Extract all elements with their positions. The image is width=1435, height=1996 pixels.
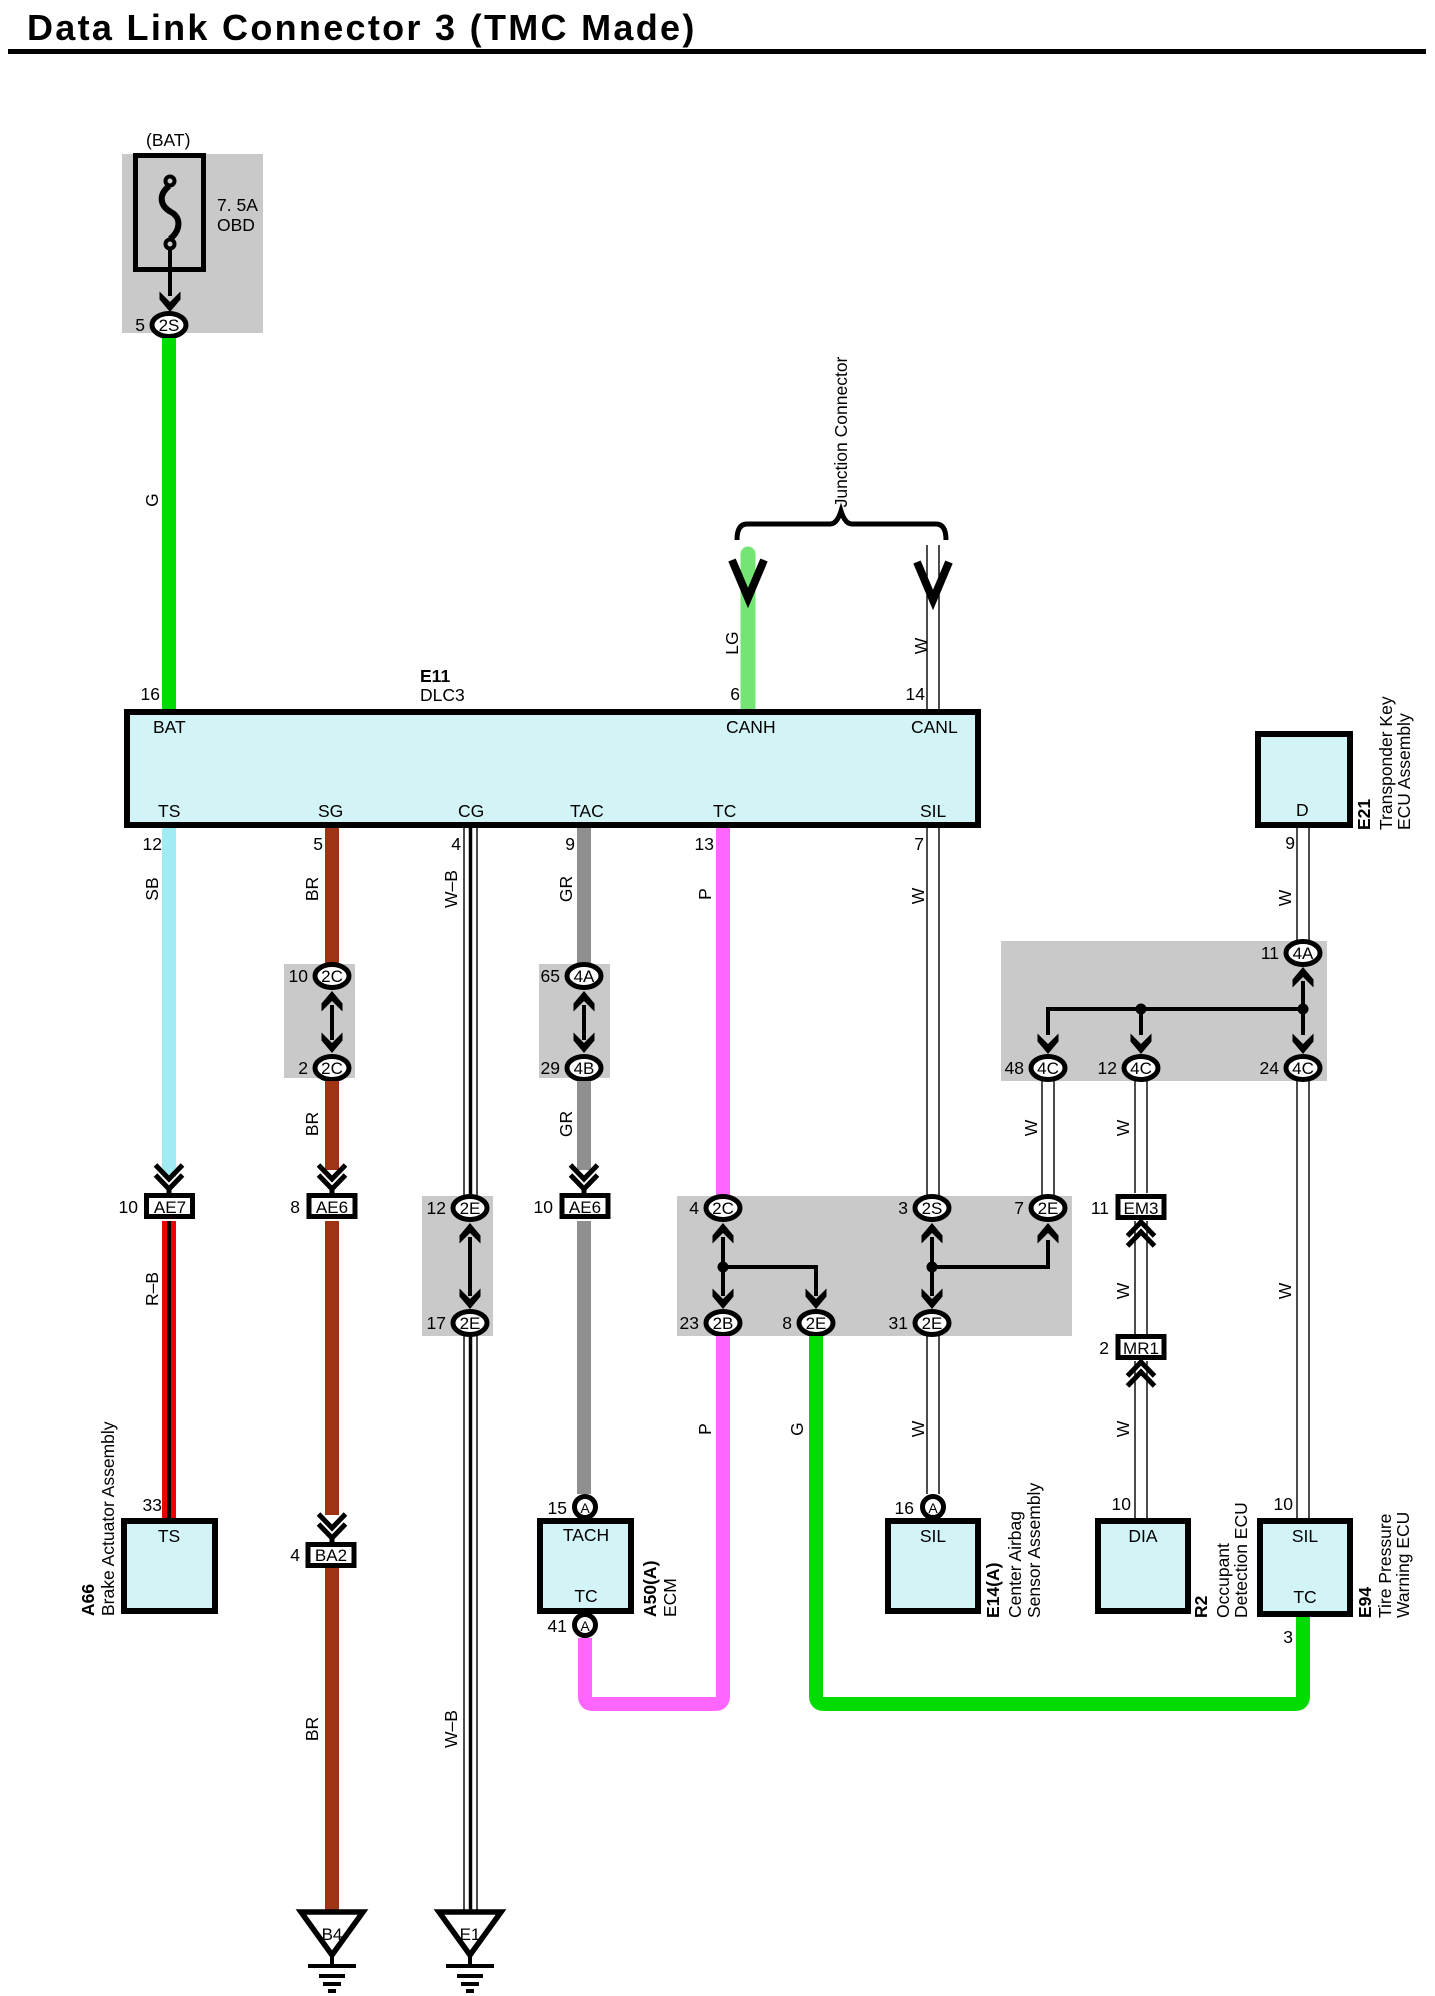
wire fuse to 2S: [168, 248, 172, 296]
wire LG junction to CANH: [741, 554, 756, 709]
svg-text:41: 41: [548, 1616, 567, 1636]
wire 2S to 2E pair: [922, 1223, 1059, 1309]
svg-text:2S: 2S: [159, 316, 180, 335]
svg-text:W: W: [1113, 1420, 1133, 1437]
splice AE6: [290, 1196, 355, 1218]
connector A 16: [923, 1497, 944, 1518]
wire W E21 to 4A: [1297, 828, 1309, 940]
wire G green 2S to E11 BAT: [162, 338, 176, 709]
chevrons into AE6: [319, 1165, 346, 1193]
svg-text:31: 31: [889, 1313, 908, 1333]
svg-text:GR: GR: [556, 1111, 576, 1137]
ground B4: [301, 1912, 363, 1991]
svg-text:ECU Assembly: ECU Assembly: [1394, 713, 1414, 830]
connector 8 2E: [782, 1312, 833, 1335]
connector A 15: [575, 1497, 596, 1518]
svg-text:24: 24: [1260, 1058, 1280, 1078]
svg-text:Detection ECU: Detection ECU: [1231, 1502, 1251, 1618]
svg-text:W–B: W–B: [441, 870, 461, 908]
chevrons into BA2: [319, 1514, 346, 1542]
svg-text:3: 3: [898, 1198, 908, 1218]
svg-text:4B: 4B: [574, 1059, 595, 1078]
splice BA2: [290, 1545, 354, 1566]
wire W-B 2E17 to ground: [464, 1336, 477, 1912]
gray box 4A 4B: [539, 964, 610, 1078]
svg-text:12: 12: [1098, 1058, 1117, 1078]
svg-text:9: 9: [565, 834, 575, 854]
svg-text:10: 10: [1274, 1494, 1294, 1514]
ECM box TACH TC: [540, 1521, 631, 1611]
svg-text:W: W: [1113, 1282, 1133, 1299]
chevrons into AE7: [156, 1165, 183, 1193]
wire W-B CG to 2E: [464, 828, 477, 1196]
chevrons below MR1: [1128, 1362, 1155, 1386]
svg-text:TAC: TAC: [570, 801, 604, 821]
wire GR 4B to AE6: [577, 1081, 591, 1170]
svg-text:7: 7: [914, 834, 924, 854]
title: [8, 7, 1426, 54]
svg-text:R–B: R–B: [142, 1272, 162, 1306]
connector 3 2S: [898, 1197, 949, 1220]
svg-text:DIA: DIA: [1128, 1526, 1158, 1546]
wire R-B AE7 to TS: [162, 1221, 176, 1518]
junction arrow W: [917, 562, 949, 600]
arrows between 2C: [322, 991, 343, 1053]
svg-text:G: G: [142, 493, 162, 507]
E21 labels: [1354, 696, 1414, 830]
svg-text:2E: 2E: [922, 1314, 943, 1333]
svg-text:10: 10: [119, 1197, 139, 1217]
svg-text:MR1: MR1: [1123, 1339, 1159, 1358]
svg-text:5: 5: [313, 834, 323, 854]
wire net 4C row: [1038, 967, 1314, 1054]
svg-text:AE7: AE7: [154, 1198, 186, 1217]
wire 2C to 2B and 2E: [713, 1223, 827, 1309]
svg-text:Brake Actuator Assembly: Brake Actuator Assembly: [98, 1421, 118, 1616]
wire BR SG to 2C: [325, 828, 339, 964]
svg-text:A: A: [580, 1618, 590, 1634]
svg-text:SIL: SIL: [920, 801, 947, 821]
svg-text:W: W: [908, 887, 928, 904]
svg-text:AE6: AE6: [316, 1198, 348, 1217]
svg-text:W: W: [1275, 889, 1295, 906]
ground E1: [439, 1912, 501, 1991]
svg-text:8: 8: [782, 1313, 792, 1333]
svg-text:2: 2: [298, 1058, 308, 1078]
brake box TS: [124, 1521, 215, 1611]
fuse shading area: [122, 154, 263, 333]
svg-text:2E: 2E: [460, 1314, 481, 1333]
svg-text:CANL: CANL: [911, 717, 958, 737]
svg-text:P: P: [695, 888, 715, 900]
occupant box DIA: [1098, 1521, 1188, 1611]
svg-text:23: 23: [680, 1313, 699, 1333]
wire W 4C to EM3: [1135, 1081, 1147, 1193]
fuse 7.5A OBD: [136, 156, 259, 270]
svg-text:2S: 2S: [922, 1199, 943, 1218]
wire W MR1 to DIA: [1135, 1361, 1147, 1518]
tire pressure box SIL TC: [1260, 1521, 1350, 1614]
svg-text:CG: CG: [458, 801, 484, 821]
wire G U-turn 2E to E94 TC: [816, 1336, 1303, 1704]
connector 10 2C: [289, 965, 349, 988]
A66 labels: [78, 1421, 118, 1616]
svg-text:TC: TC: [713, 801, 736, 821]
svg-text:TC: TC: [574, 1586, 597, 1606]
svg-text:AE6: AE6: [569, 1198, 601, 1217]
E94 labels: [1355, 1512, 1413, 1618]
wire W EM3 to MR1: [1135, 1221, 1147, 1334]
svg-text:29: 29: [541, 1058, 560, 1078]
svg-text:W: W: [908, 1420, 928, 1437]
connector 29 4B: [541, 1057, 601, 1080]
svg-text:W–B: W–B: [441, 1710, 461, 1748]
svg-text:SIL: SIL: [920, 1526, 947, 1546]
connector 5 2S: [135, 314, 186, 337]
gray box 2E pair: [422, 1196, 493, 1336]
splice AE7: [119, 1196, 193, 1218]
svg-text:13: 13: [695, 834, 714, 854]
svg-text:4C: 4C: [1037, 1059, 1059, 1078]
svg-text:2: 2: [1099, 1338, 1109, 1358]
svg-text:A: A: [928, 1500, 938, 1516]
svg-text:E14(A): E14(A): [983, 1563, 1003, 1618]
gray box 2C pair: [284, 964, 355, 1078]
splice MR1: [1099, 1337, 1164, 1359]
svg-text:LG: LG: [722, 631, 742, 654]
connector 7 2E: [1014, 1197, 1065, 1220]
svg-text:Data Link Connector 3 (TMC Mad: Data Link Connector 3 (TMC Made): [27, 7, 697, 48]
svg-text:10: 10: [534, 1197, 554, 1217]
svg-text:BAT: BAT: [153, 717, 186, 737]
svg-text:2B: 2B: [713, 1314, 734, 1333]
wire W SIL to 2S: [927, 828, 939, 1196]
wire W junction to CANL: [927, 545, 939, 709]
connector 4 2C: [689, 1197, 740, 1220]
svg-text:E11: E11: [420, 666, 450, 686]
connector 23 2B: [680, 1312, 740, 1335]
junction arrow LG: [732, 560, 764, 598]
svg-text:4: 4: [689, 1198, 699, 1218]
E14 labels: [983, 1483, 1044, 1618]
svg-text:(BAT): (BAT): [146, 130, 190, 150]
splice AE6: [534, 1196, 608, 1218]
svg-text:P: P: [695, 1423, 715, 1435]
R2 labels: [1191, 1502, 1251, 1618]
svg-text:4C: 4C: [1292, 1059, 1314, 1078]
connector 65 4A: [541, 965, 601, 988]
svg-text:TS: TS: [158, 1526, 180, 1546]
svg-text:BR: BR: [302, 877, 322, 901]
connector 12 4C: [1098, 1057, 1158, 1080]
svg-text:W: W: [1021, 1119, 1041, 1136]
wire W 4C to E94 SIL: [1297, 1081, 1309, 1518]
svg-text:BR: BR: [302, 1717, 322, 1741]
connector A 41: [575, 1615, 596, 1636]
svg-text:TS: TS: [158, 801, 180, 821]
svg-text:65: 65: [541, 966, 560, 986]
svg-text:4A: 4A: [574, 967, 595, 986]
svg-text:BA2: BA2: [315, 1546, 347, 1565]
junction brace: [737, 511, 946, 540]
svg-text:11: 11: [1091, 1198, 1109, 1218]
wire W 4C to 2E: [1042, 1081, 1054, 1195]
svg-text:R2: R2: [1191, 1595, 1211, 1618]
svg-text:B4: B4: [322, 1925, 343, 1944]
chevrons below EM3: [1128, 1222, 1155, 1246]
svg-text:7. 5A: 7. 5A: [217, 195, 258, 215]
svg-text:6: 6: [730, 684, 740, 704]
E11 DLC3 label: [420, 666, 465, 705]
arrows between 4A 4B: [574, 991, 595, 1053]
connector 31 2E: [889, 1312, 949, 1335]
A50 ECM labels: [640, 1561, 680, 1617]
svg-text:10: 10: [289, 966, 309, 986]
wire W 2E31 to A16: [927, 1336, 939, 1494]
svg-text:16: 16: [141, 684, 160, 704]
svg-text:TC: TC: [1293, 1587, 1316, 1607]
gray box middle row: [677, 1196, 1072, 1336]
svg-text:A66: A66: [78, 1584, 98, 1616]
svg-text:2C: 2C: [321, 1059, 343, 1078]
svg-text:2C: 2C: [321, 967, 343, 986]
svg-text:4C: 4C: [1130, 1059, 1152, 1078]
svg-text:33: 33: [143, 1495, 162, 1515]
svg-text:2E: 2E: [806, 1314, 827, 1333]
svg-text:Transponder Key: Transponder Key: [1376, 696, 1396, 830]
svg-text:7: 7: [1014, 1198, 1024, 1218]
chevrons into AE6 right: [571, 1165, 598, 1193]
svg-text:CANH: CANH: [726, 717, 776, 737]
svg-text:ECM: ECM: [660, 1578, 680, 1617]
wire GR TAC to 4A: [577, 828, 591, 964]
svg-text:14: 14: [906, 684, 926, 704]
svg-text:E1: E1: [460, 1925, 481, 1944]
svg-text:15: 15: [548, 1498, 567, 1518]
connector 12 2E: [427, 1197, 487, 1220]
connector 24 4C: [1260, 1057, 1320, 1080]
svg-text:48: 48: [1005, 1058, 1024, 1078]
svg-text:11: 11: [1261, 943, 1279, 963]
svg-text:W: W: [1113, 1119, 1133, 1136]
arrow into 2S: [160, 292, 181, 313]
splice EM3: [1091, 1197, 1164, 1219]
svg-text:BR: BR: [302, 1112, 322, 1136]
svg-text:16: 16: [895, 1498, 914, 1518]
svg-text:W: W: [911, 637, 931, 654]
svg-text:12: 12: [143, 834, 162, 854]
connector 17 2E: [427, 1312, 487, 1335]
connector 11 4A: [1261, 942, 1320, 965]
svg-text:9: 9: [1285, 833, 1295, 853]
svg-text:EM3: EM3: [1124, 1199, 1159, 1218]
gray box 4C row: [1001, 941, 1327, 1081]
svg-text:8: 8: [290, 1197, 300, 1217]
connector 2 2C: [298, 1057, 349, 1080]
svg-text:Warning ECU: Warning ECU: [1393, 1512, 1413, 1618]
svg-text:Occupant: Occupant: [1213, 1543, 1233, 1618]
svg-text:W: W: [1275, 1282, 1295, 1299]
wire BR BA2 to ground: [325, 1568, 339, 1912]
svg-text:4: 4: [290, 1545, 300, 1565]
svg-text:Tire Pressure: Tire Pressure: [1375, 1514, 1395, 1618]
svg-text:4A: 4A: [1293, 944, 1314, 963]
svg-text:A: A: [580, 1500, 590, 1516]
svg-text:SB: SB: [142, 877, 162, 900]
svg-text:2E: 2E: [1038, 1199, 1059, 1218]
svg-text:17: 17: [427, 1313, 446, 1333]
svg-text:E94: E94: [1355, 1587, 1375, 1618]
svg-text:SG: SG: [318, 801, 343, 821]
svg-text:5: 5: [135, 315, 145, 335]
wire BR AE6 to BA2: [325, 1221, 339, 1515]
arrows between 2E: [460, 1223, 481, 1309]
svg-text:Junction Connector: Junction Connector: [831, 356, 851, 507]
connector 48 4C: [1005, 1057, 1065, 1080]
svg-text:D: D: [1296, 800, 1309, 820]
wire BR 2C to AE6: [325, 1081, 339, 1170]
wire GR AE6 to A15: [577, 1221, 591, 1494]
svg-text:2E: 2E: [460, 1199, 481, 1218]
svg-text:10: 10: [1112, 1494, 1132, 1514]
airbag box SIL: [888, 1521, 978, 1611]
svg-text:DLC3: DLC3: [420, 685, 465, 705]
svg-text:2C: 2C: [712, 1199, 734, 1218]
svg-text:Sensor Assembly: Sensor Assembly: [1024, 1483, 1044, 1618]
E21 box: [1258, 734, 1350, 825]
wire SB TS to AE7: [162, 828, 176, 1177]
svg-text:12: 12: [427, 1198, 446, 1218]
wire P U-turn A41 to 2B: [585, 1336, 723, 1704]
svg-text:Center Airbag: Center Airbag: [1005, 1511, 1025, 1618]
svg-text:GR: GR: [556, 876, 576, 902]
svg-text:E21: E21: [1354, 799, 1374, 830]
svg-text:4: 4: [451, 834, 461, 854]
svg-text:G: G: [787, 1422, 807, 1436]
DLC3 connector box E11: [127, 712, 978, 825]
svg-text:A50(A): A50(A): [640, 1561, 660, 1617]
svg-text:OBD: OBD: [217, 215, 255, 235]
wire P TC to 2C: [716, 828, 730, 1196]
svg-text:3: 3: [1283, 1627, 1293, 1647]
svg-text:TACH: TACH: [563, 1525, 609, 1545]
svg-text:SIL: SIL: [1292, 1526, 1319, 1546]
